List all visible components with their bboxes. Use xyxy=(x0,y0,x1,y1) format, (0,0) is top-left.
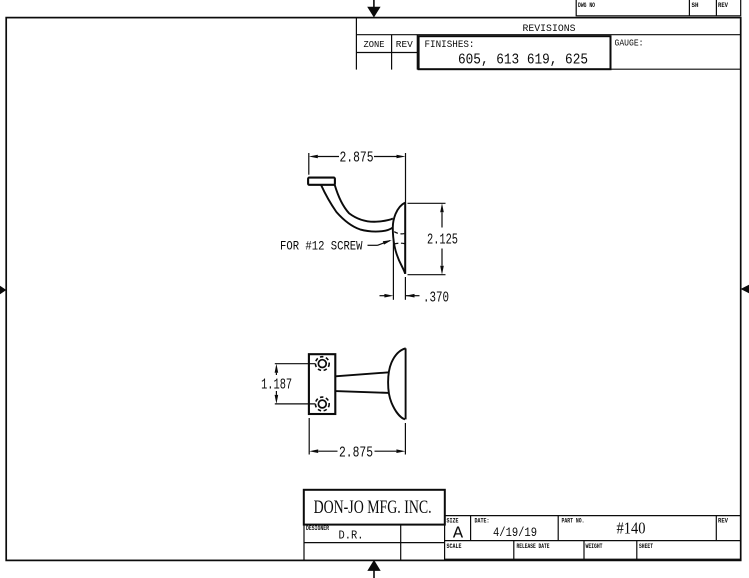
top-right DWG NO strip xyxy=(576,0,741,16)
mounting plate rectangle xyxy=(309,354,335,414)
dimension .370: dimension line + arrows xyxy=(380,294,420,298)
screw hole hidden arcs xyxy=(394,232,405,244)
svg-text:ZONE: ZONE xyxy=(364,40,385,50)
arm inner curve xyxy=(335,185,393,222)
svg-text:PART NO.: PART NO. xyxy=(562,518,585,525)
hook tip rectangle xyxy=(308,178,335,185)
leader FOR #12 SCREW xyxy=(368,240,392,245)
svg-text:DWG NO: DWG NO xyxy=(578,2,595,9)
svg-text:SHEET: SHEET xyxy=(639,543,653,550)
designer rows frame xyxy=(304,516,445,560)
svg-text:SCALE: SCALE xyxy=(447,543,462,550)
centering arrow right xyxy=(741,285,749,294)
svg-text:REVISIONS: REVISIONS xyxy=(523,24,576,35)
dimension 2.125: dimension line + arrows xyxy=(440,203,444,274)
svg-text:605, 613 619, 625: 605, 613 619, 625 xyxy=(458,52,588,69)
svg-text:SH: SH xyxy=(692,2,699,9)
revisions table frame xyxy=(356,18,740,70)
wall plate dome profile xyxy=(393,203,405,274)
svg-text:WEIGHT: WEIGHT xyxy=(586,543,603,550)
svg-text:A: A xyxy=(453,525,464,544)
svg-text:D.R.: D.R. xyxy=(339,529,364,542)
arm top edge (front view) xyxy=(335,372,389,376)
centering arrow left xyxy=(0,286,6,295)
svg-text:#140: #140 xyxy=(617,519,646,538)
arm bottom edge (front view) xyxy=(335,391,389,393)
dimension 1.187: dimension line + arrows xyxy=(275,364,279,404)
svg-text:RELEASE DATE: RELEASE DATE xyxy=(517,543,550,550)
centering arrow top xyxy=(367,0,380,18)
dimension 2.125: extension lines xyxy=(408,203,446,274)
finishes box xyxy=(419,36,611,69)
svg-text:.370: .370 xyxy=(423,291,449,307)
svg-text:2.875: 2.875 xyxy=(340,151,374,167)
svg-text:4/19/19: 4/19/19 xyxy=(493,525,537,540)
svg-text:REV: REV xyxy=(718,2,728,9)
company box DON-JO MFG. INC. xyxy=(304,490,445,525)
svg-text:REV: REV xyxy=(396,40,414,50)
svg-text:SIZE: SIZE xyxy=(447,518,459,525)
screw hole upper: circle xyxy=(315,357,329,371)
dimension 2.875 (bottom): extension lines xyxy=(309,418,405,455)
centering arrow bottom xyxy=(367,560,380,578)
svg-text:DON-JO MFG. INC.: DON-JO MFG. INC. xyxy=(314,497,432,518)
dimension 2.875 (bottom): dimension line + arrows xyxy=(309,449,405,453)
arm outer curve xyxy=(321,185,393,232)
svg-text:DESIGNER: DESIGNER xyxy=(306,525,329,532)
dimension 2.875 (top): extension lines xyxy=(309,153,406,203)
svg-text:FOR #12 SCREW: FOR #12 SCREW xyxy=(280,240,363,254)
svg-text:1.187: 1.187 xyxy=(261,378,292,394)
dimension .370: extension lines xyxy=(393,234,405,300)
svg-text:REV: REV xyxy=(718,518,728,525)
screw hole lower: circle xyxy=(315,397,329,411)
title block right frame xyxy=(445,516,741,560)
svg-text:FINISHES:: FINISHES: xyxy=(425,39,475,50)
svg-text:GAUGE:: GAUGE: xyxy=(615,39,644,49)
svg-text:2.125: 2.125 xyxy=(427,232,458,248)
svg-text:DATE:: DATE: xyxy=(475,518,490,525)
dimension 2.875 (top): dimension line + arrows xyxy=(309,155,406,159)
saddle tip dome (front view) xyxy=(388,348,406,419)
svg-text:2.875: 2.875 xyxy=(339,445,373,461)
dimension 1.187: extension lines xyxy=(275,364,316,404)
